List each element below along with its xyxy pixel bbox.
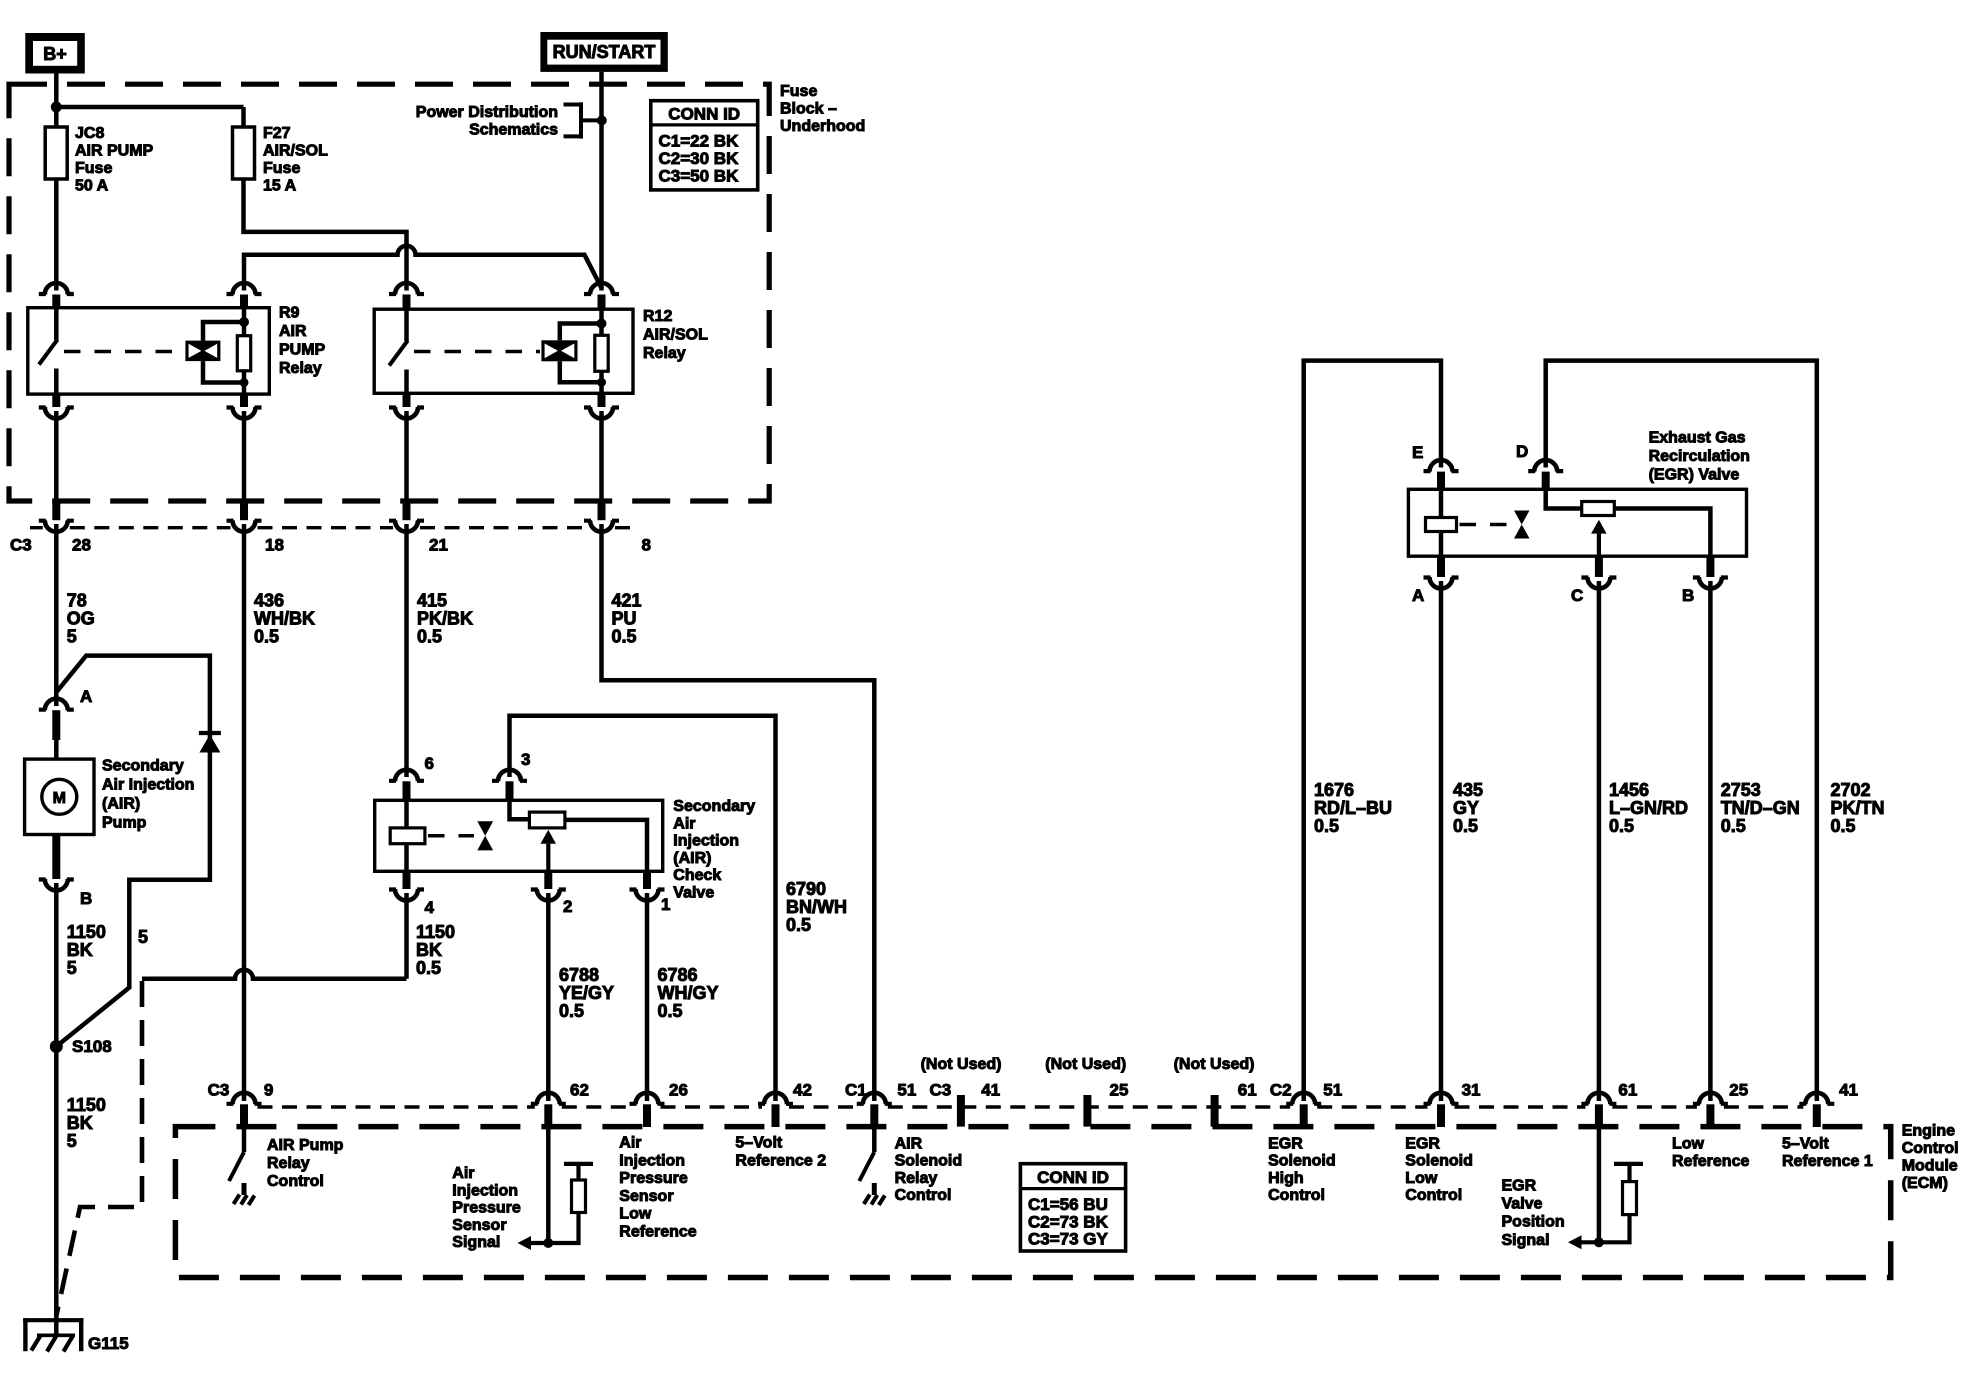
relay R9 switch <box>39 308 58 394</box>
svg-text:5–Volt: 5–Volt <box>1782 1135 1830 1152</box>
air injection pressure sensor low reference label <box>619 1135 696 1241</box>
connector ECM terminal at x=1598.9 <box>1581 1093 1616 1127</box>
check valve pressure sensor feed <box>510 800 530 819</box>
ECM label <box>1902 1123 1959 1193</box>
svg-text:Relay: Relay <box>267 1155 310 1172</box>
ECM connector line (fine dashed) <box>258 1105 1804 1108</box>
svg-text:Relay: Relay <box>643 345 686 362</box>
connector below relay R12 coil pin <box>584 393 619 418</box>
connector at relay R12 coil pin (from RUN/START) <box>584 283 619 310</box>
wire 1150 BK from pump to ground <box>54 883 59 1336</box>
connector at check valve pin 1 <box>630 871 665 900</box>
check valve sensor low side wire to pin 1 <box>565 820 647 871</box>
motor M secondary air injection pump <box>25 759 94 834</box>
svg-text:C2: C2 <box>1270 1081 1292 1100</box>
connector id table CONN ID (fuse block) <box>651 101 758 190</box>
wire 415 PK/BK 0.5 label <box>417 591 473 647</box>
svg-text:Module: Module <box>1902 1158 1958 1175</box>
svg-text:6790: 6790 <box>786 879 826 899</box>
connector C3 terminal at x=406.5 <box>389 411 424 532</box>
wire 6788 YE/GY 0.5 label <box>559 965 614 1021</box>
svg-text:(EGR) Valve: (EGR) Valve <box>1649 467 1740 484</box>
svg-text:26: 26 <box>669 1081 688 1100</box>
svg-text:Low: Low <box>619 1206 652 1223</box>
relay R12 control dashed link <box>414 350 540 354</box>
EGR valve label <box>1649 430 1750 484</box>
svg-text:3: 3 <box>521 750 530 769</box>
svg-text:21: 21 <box>429 536 448 555</box>
svg-text:6: 6 <box>425 754 434 773</box>
pin label A <box>80 687 92 706</box>
relay R12 coil <box>541 324 601 383</box>
check valve valve symbol <box>477 821 493 850</box>
fuse F27 AIR/SOL 15A <box>233 127 255 179</box>
svg-text:15 A: 15 A <box>263 178 297 195</box>
connector ECM terminal at x=1441 <box>1424 1093 1459 1127</box>
svg-text:B: B <box>80 889 92 908</box>
wire JC8 fuse to relay R9 pin <box>54 179 59 291</box>
wire 78 OG down to connector A <box>54 524 59 706</box>
wire 2702 PK/TN from EGR pin D to ECM pin 41 <box>1546 361 1817 1101</box>
svg-text:M: M <box>53 790 66 807</box>
connector at relay R12 switch pin (from fuse F27) <box>389 283 424 310</box>
signal arrow (pin 62) <box>518 1236 549 1250</box>
wire 1150 BK 0.5 label <box>416 922 455 978</box>
connector line C3 (fuse block harness) <box>30 526 630 529</box>
svg-text:Fuse: Fuse <box>75 160 112 177</box>
svg-text:PK/TN: PK/TN <box>1831 798 1885 818</box>
svg-text:Signal: Signal <box>452 1234 500 1251</box>
svg-text:1456: 1456 <box>1609 780 1649 800</box>
svg-text:6786: 6786 <box>658 965 698 985</box>
AIR solenoid relay control label <box>895 1136 963 1205</box>
svg-text:RUN/START: RUN/START <box>553 42 656 62</box>
wire 1456 L-GN/RD 0.5 label <box>1609 780 1688 836</box>
junction node on B+ feed <box>51 102 62 113</box>
svg-text:51: 51 <box>897 1081 916 1100</box>
pin label B <box>80 889 92 908</box>
connector ECM terminal at x=244 <box>227 1093 262 1127</box>
connector at EGR pin C <box>1581 556 1616 588</box>
svg-text:Low: Low <box>1405 1170 1438 1187</box>
svg-text:Low: Low <box>1672 1135 1705 1152</box>
connector at EGR pin B <box>1693 556 1728 588</box>
power terminal RUN/START <box>540 32 667 72</box>
svg-text:Valve: Valve <box>673 885 714 902</box>
wire 1676 RD/L-BU from EGR pin E to ECM pin 51 C2 <box>1304 361 1441 1101</box>
svg-text:Schematics: Schematics <box>469 122 558 139</box>
EGR solenoid low control label <box>1405 1136 1473 1205</box>
node label S108 <box>72 1037 112 1056</box>
svg-text:OG: OG <box>67 609 95 629</box>
svg-text:Reference 1: Reference 1 <box>1782 1153 1873 1170</box>
svg-text:S108: S108 <box>72 1037 112 1056</box>
EGR solenoid high control label <box>1268 1136 1336 1205</box>
svg-text:Signal: Signal <box>1502 1232 1550 1249</box>
svg-text:50 A: 50 A <box>75 178 109 195</box>
svg-text:High: High <box>1268 1170 1304 1187</box>
svg-text:0.5: 0.5 <box>786 915 811 935</box>
EGR valve box <box>1408 489 1746 556</box>
svg-text:(Not Used): (Not Used) <box>1174 1056 1255 1073</box>
ground symbol at pin 9 driver <box>234 1183 255 1205</box>
ECM pin number labels <box>208 1081 1858 1100</box>
connector at check valve pin 4 <box>389 871 424 900</box>
svg-text:EGR: EGR <box>1268 1136 1303 1153</box>
relay R12 box <box>374 309 633 393</box>
svg-text:0.5: 0.5 <box>1721 816 1746 836</box>
svg-text:JC8: JC8 <box>75 125 104 142</box>
svg-text:41: 41 <box>981 1081 1000 1100</box>
svg-text:1150: 1150 <box>416 922 455 942</box>
svg-text:Secondary: Secondary <box>673 798 755 815</box>
connector at EGR pin E <box>1424 460 1459 490</box>
svg-text:436: 436 <box>254 591 284 611</box>
connector at EGR pin D <box>1528 460 1563 490</box>
svg-text:0.5: 0.5 <box>417 627 442 647</box>
svg-text:5: 5 <box>67 627 77 647</box>
ECM pull-up resistor at pin 61 <box>1599 1164 1643 1242</box>
wire 436 WH/BK to ECM pin 9 <box>242 524 247 1101</box>
svg-text:C3: C3 <box>208 1081 230 1100</box>
wire diode bypass branch <box>56 656 210 1047</box>
svg-text:Relay: Relay <box>895 1170 938 1187</box>
svg-text:BK: BK <box>67 940 93 960</box>
check valve label <box>673 798 755 902</box>
svg-text:C1=56 BU: C1=56 BU <box>1028 1195 1108 1214</box>
relay R9 control dashed link <box>64 350 184 354</box>
svg-text:Injection: Injection <box>452 1182 518 1199</box>
svg-text:L–GN/RD: L–GN/RD <box>1609 798 1688 818</box>
relay R12 internal wire and resistor <box>595 309 608 393</box>
relay R9 box <box>28 308 269 394</box>
svg-text:Control: Control <box>1902 1140 1959 1157</box>
not used terminal stubs 41 25 61 <box>961 1095 1215 1127</box>
svg-text:2702: 2702 <box>1831 780 1871 800</box>
svg-text:Power Distribution: Power Distribution <box>416 104 558 121</box>
svg-text:Solenoid: Solenoid <box>895 1153 963 1170</box>
junction node power distribution tap <box>597 115 607 125</box>
svg-text:Pump: Pump <box>102 815 147 832</box>
svg-text:Reference: Reference <box>619 1224 696 1241</box>
svg-text:R12: R12 <box>643 308 672 325</box>
svg-text:E: E <box>1412 443 1423 462</box>
check valve sensor wiper arrow to pin 2 <box>541 830 557 871</box>
not used labels <box>921 1056 1255 1073</box>
wire 2702 PK/TN 0.5 label <box>1831 780 1885 836</box>
svg-text:Injection: Injection <box>619 1152 685 1169</box>
junction nodes relay R12 coil to resistor <box>597 319 607 387</box>
wire 6786 WH/GY 0.5 label <box>658 965 719 1021</box>
svg-text:2: 2 <box>563 897 572 916</box>
svg-text:8: 8 <box>642 536 651 555</box>
svg-text:(AIR): (AIR) <box>673 850 711 867</box>
splice S108 <box>50 1040 63 1053</box>
svg-text:D: D <box>1516 442 1528 461</box>
svg-text:Valve: Valve <box>1502 1196 1543 1213</box>
connector at check valve pin 3 <box>492 770 527 801</box>
svg-text:(Not Used): (Not Used) <box>1045 1056 1126 1073</box>
svg-text:WH/BK: WH/BK <box>254 609 315 629</box>
svg-text:RD/L–BU: RD/L–BU <box>1314 798 1392 818</box>
wire 1676 RD/L-BU 0.5 label <box>1314 780 1392 836</box>
svg-text:Position: Position <box>1502 1214 1565 1231</box>
svg-text:78: 78 <box>67 591 87 611</box>
junction nodes relay R9 coil to resistor <box>239 317 249 387</box>
relay R9 internal wire and resistor <box>237 308 250 394</box>
ground label G115 <box>88 1334 129 1353</box>
svg-text:WH/GY: WH/GY <box>658 983 719 1003</box>
svg-text:Air Injection: Air Injection <box>102 777 194 794</box>
wire 6786 WH/GY to ECM pin 26 <box>645 893 650 1101</box>
svg-text:Fuse: Fuse <box>780 83 817 100</box>
svg-text:0.5: 0.5 <box>1314 816 1339 836</box>
svg-text:Exhaust Gas: Exhaust Gas <box>1649 430 1746 447</box>
svg-text:Block –: Block – <box>780 101 837 118</box>
svg-text:1150: 1150 <box>67 922 106 942</box>
svg-text:AIR/SOL: AIR/SOL <box>263 143 328 160</box>
svg-text:Underhood: Underhood <box>780 118 865 135</box>
svg-text:(Not Used): (Not Used) <box>921 1056 1002 1073</box>
5-volt reference 2 label <box>735 1135 826 1170</box>
wire size label 5 (branch) <box>138 927 148 947</box>
junction node pin 61 signal <box>1594 1237 1604 1247</box>
wire junction to fuse F27 <box>54 107 244 127</box>
svg-text:Control: Control <box>895 1187 952 1204</box>
EGR sensor low side wire to pin B <box>1614 509 1710 557</box>
svg-text:GY: GY <box>1453 798 1479 818</box>
svg-text:41: 41 <box>1839 1081 1858 1100</box>
wire 1150 BK 0.5 from pin 4 <box>404 893 409 979</box>
svg-text:AIR/SOL: AIR/SOL <box>643 327 708 344</box>
AIR pump relay control label <box>267 1137 344 1190</box>
connector C3 terminal at x=244 <box>227 411 262 532</box>
connector below relay R9 coil pin <box>227 394 262 418</box>
svg-text:C: C <box>1571 586 1583 605</box>
fuse block underhood dashed boundary <box>9 84 769 501</box>
EGR sensor wiper arrow to pin C <box>1591 520 1607 556</box>
connector C3 terminal at x=56.3 <box>39 411 74 532</box>
svg-text:C3: C3 <box>930 1081 952 1100</box>
svg-text:Solenoid: Solenoid <box>1268 1153 1336 1170</box>
svg-text:R9: R9 <box>279 305 300 322</box>
wire 1150 BK 5 label (ground side) <box>67 1095 106 1151</box>
connector below relay R9 pin 87 <box>39 394 74 418</box>
fuse JC8 AIR PUMP 50A <box>45 127 67 179</box>
svg-text:Relay: Relay <box>279 360 322 377</box>
connector ECM terminal at x=548.3 <box>531 1093 566 1127</box>
svg-text:5: 5 <box>138 927 148 947</box>
svg-text:TN/D–GN: TN/D–GN <box>1721 798 1800 818</box>
connector at relay R9 pin 86 (from fuse JC8) <box>39 283 74 309</box>
svg-text:Air: Air <box>673 815 695 832</box>
svg-text:Control: Control <box>267 1173 324 1190</box>
pin label 2 <box>563 897 572 916</box>
svg-text:1676: 1676 <box>1314 780 1354 800</box>
svg-text:EGR: EGR <box>1405 1136 1440 1153</box>
svg-text:CONN ID: CONN ID <box>1037 1168 1109 1187</box>
connector B at pump <box>39 835 74 891</box>
wire 2753 TN/D-GN 0.5 label <box>1721 780 1800 836</box>
fuse F27 label <box>263 125 328 195</box>
svg-text:5: 5 <box>67 958 77 978</box>
svg-text:0.5: 0.5 <box>1831 816 1856 836</box>
pin label C (EGR) <box>1571 586 1583 605</box>
svg-text:C2=30 BK: C2=30 BK <box>659 149 740 168</box>
connector A at pump <box>39 699 74 759</box>
relay R9 coil <box>185 322 244 383</box>
svg-text:Recirculation: Recirculation <box>1649 448 1750 465</box>
svg-text:415: 415 <box>417 591 447 611</box>
diode (pump bypass) <box>199 733 221 753</box>
ECM pull-up resistor at pin 62 <box>548 1164 593 1243</box>
connector C3 terminal at x=601.5 <box>584 411 619 532</box>
svg-text:61: 61 <box>1238 1081 1257 1100</box>
svg-text:AIR Pump: AIR Pump <box>267 1137 344 1154</box>
wire 435 GY 0.5 label <box>1453 780 1483 836</box>
svg-text:Pressure: Pressure <box>619 1170 688 1187</box>
wire RUN/START feed to relay R12 coil pin <box>599 72 604 291</box>
svg-text:421: 421 <box>612 591 642 611</box>
connector at check valve pin 2 <box>531 871 566 900</box>
svg-text:EGR: EGR <box>1502 1177 1537 1194</box>
EGR valve position signal label <box>1502 1177 1565 1249</box>
svg-text:A: A <box>80 687 92 706</box>
svg-text:435: 435 <box>1453 780 1483 800</box>
svg-text:42: 42 <box>793 1081 812 1100</box>
pin label 6 <box>425 754 434 773</box>
pin label D <box>1516 442 1528 461</box>
svg-text:Sensor: Sensor <box>452 1217 506 1234</box>
relay R12 switch <box>389 309 408 393</box>
svg-text:0.5: 0.5 <box>254 627 279 647</box>
signal arrow (pin 61) <box>1568 1235 1599 1249</box>
svg-text:AIR: AIR <box>279 323 307 340</box>
svg-text:C3: C3 <box>10 536 32 555</box>
EGR position sensor element <box>1582 502 1615 516</box>
check valve solenoid coil <box>390 800 425 871</box>
wire 421 PU 0.5 label <box>612 591 642 647</box>
connector ECM terminal at x=775.5 <box>758 1093 793 1127</box>
wire 1150 BK 0.5 horizontal with hop over 436 <box>142 970 407 979</box>
svg-text:Check: Check <box>673 867 721 884</box>
svg-text:Air: Air <box>619 1135 641 1152</box>
svg-text:31: 31 <box>1462 1081 1481 1100</box>
svg-text:C3=73 GY: C3=73 GY <box>1028 1230 1109 1249</box>
connector at EGR pin A <box>1424 556 1459 588</box>
svg-text:18: 18 <box>265 536 284 555</box>
check valve box <box>375 800 663 871</box>
svg-text:Fuse: Fuse <box>263 160 300 177</box>
check valve control dashed link <box>428 834 474 838</box>
svg-text:25: 25 <box>1729 1081 1748 1100</box>
svg-text:0.5: 0.5 <box>658 1001 683 1021</box>
pin label E <box>1412 443 1423 462</box>
svg-text:BK: BK <box>67 1113 93 1133</box>
svg-text:62: 62 <box>570 1081 589 1100</box>
connector ECM terminal at x=647 <box>630 1093 665 1127</box>
svg-text:C1: C1 <box>845 1081 867 1100</box>
ground G115 <box>23 1318 83 1351</box>
pin label A (EGR) <box>1412 586 1424 605</box>
wire 2753 TN/D-GN from EGR pin B to ECM pin 25 <box>1708 581 1713 1101</box>
connector below relay R12 switch pin <box>389 393 424 418</box>
svg-text:0.5: 0.5 <box>612 627 637 647</box>
check valve pressure sensor element <box>529 812 565 828</box>
wire 436 WH/BK 0.5 label <box>254 591 315 647</box>
pin label B (EGR) <box>1682 586 1694 605</box>
EGR valve symbol <box>1514 511 1530 539</box>
EGR position sensor feed from pin D <box>1546 489 1582 508</box>
svg-text:B+: B+ <box>43 44 67 64</box>
svg-text:Engine: Engine <box>1902 1123 1955 1140</box>
low reference label <box>1672 1135 1749 1170</box>
pin label 4 <box>425 898 435 917</box>
svg-text:C3=50 BK: C3=50 BK <box>659 167 740 186</box>
connector at check valve pin 6 <box>389 770 424 801</box>
power terminal B+ <box>25 33 85 74</box>
EGR control dashed link <box>1460 523 1511 527</box>
relay R9 label <box>279 305 326 378</box>
svg-text:PUMP: PUMP <box>279 342 326 359</box>
connector ECM terminal at x=1816.8 <box>1799 1093 1834 1127</box>
svg-text:BN/WH: BN/WH <box>786 897 847 917</box>
ECM EGR valve position signal input (pin 61) <box>1597 1127 1602 1242</box>
svg-text:C2=73 BK: C2=73 BK <box>1028 1212 1109 1231</box>
svg-text:CONN ID: CONN ID <box>668 105 740 124</box>
svg-text:28: 28 <box>72 536 91 555</box>
svg-text:61: 61 <box>1618 1081 1637 1100</box>
svg-text:Solenoid: Solenoid <box>1405 1153 1473 1170</box>
svg-text:4: 4 <box>425 898 435 917</box>
svg-text:Secondary: Secondary <box>102 758 184 775</box>
wire 1150 BK 5 label (pump side) <box>67 922 106 978</box>
wire 1456 L-GN/RD from EGR pin C to ECM pin 61 <box>1597 581 1602 1101</box>
svg-text:Pressure: Pressure <box>452 1200 521 1217</box>
svg-text:0.5: 0.5 <box>416 958 441 978</box>
svg-text:9: 9 <box>264 1081 273 1100</box>
ECM air injection pressure sensor signal input (pin 62) <box>546 1127 551 1243</box>
pin label 1 <box>661 895 670 914</box>
EGR solenoid coil <box>1426 489 1457 556</box>
svg-text:0.5: 0.5 <box>559 1001 584 1021</box>
svg-text:Control: Control <box>1268 1187 1325 1204</box>
wire 435 GY from EGR pin A to ECM pin 31 <box>1439 581 1444 1101</box>
svg-text:(ECM): (ECM) <box>1902 1175 1948 1192</box>
svg-text:AIR PUMP: AIR PUMP <box>75 143 154 160</box>
ECM driver switch for AIR solenoid relay control (pin 51 C1) <box>859 1127 874 1181</box>
wire 6790 from check valve pin 3 to ECM pin 42 <box>510 716 776 1101</box>
junction node pin 62 signal <box>543 1238 553 1248</box>
connector ECM terminal at x=874.3 <box>857 1093 892 1127</box>
svg-text:AIR: AIR <box>895 1136 923 1153</box>
pin label 3 <box>521 750 530 769</box>
fuse JC8 label <box>75 125 154 195</box>
svg-text:Injection: Injection <box>673 833 739 850</box>
wire 6790 BN/WH 0.5 label <box>786 879 847 935</box>
wire 78 OG 5 label <box>67 591 95 647</box>
wire 6788 YE/GY to ECM pin 62 <box>546 893 551 1101</box>
svg-text:C1=22 BK: C1=22 BK <box>659 132 740 151</box>
wire B+ feed down to junction <box>54 74 59 128</box>
dashed ground reference path to G115 <box>56 981 142 1316</box>
svg-text:51: 51 <box>1323 1081 1342 1100</box>
svg-text:BK: BK <box>416 940 442 960</box>
wire 421 PU to ECM pin 51 <box>602 524 875 1101</box>
svg-text:Air: Air <box>452 1165 474 1182</box>
svg-text:5–Volt: 5–Volt <box>735 1135 783 1152</box>
power distribution schematics label and bracket <box>416 102 602 138</box>
